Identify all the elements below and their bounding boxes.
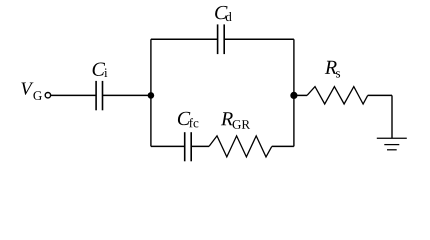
wire <box>150 39 152 146</box>
label VG <box>21 82 33 94</box>
wire <box>103 94 151 96</box>
capacitor Cd <box>218 24 225 54</box>
label Cd <box>215 6 227 19</box>
terminal circle <box>45 93 50 98</box>
node B <box>290 92 297 99</box>
resistor Rs <box>307 87 368 104</box>
wire <box>391 95 393 138</box>
ground <box>377 138 407 150</box>
capacitor Cfc <box>185 132 192 161</box>
wire <box>151 145 185 147</box>
node A <box>148 92 155 99</box>
label Ci <box>93 62 105 75</box>
wire <box>224 38 294 40</box>
wire <box>191 145 209 147</box>
wire <box>51 94 96 96</box>
wire <box>272 145 294 147</box>
wire <box>293 39 295 146</box>
wire <box>294 94 307 96</box>
label Rs <box>325 61 337 74</box>
wire <box>151 38 218 40</box>
label RGR <box>221 112 233 125</box>
capacitor Ci <box>96 81 102 110</box>
resistor RGR <box>209 136 272 157</box>
wire <box>368 94 392 96</box>
label Cfc <box>178 112 190 125</box>
